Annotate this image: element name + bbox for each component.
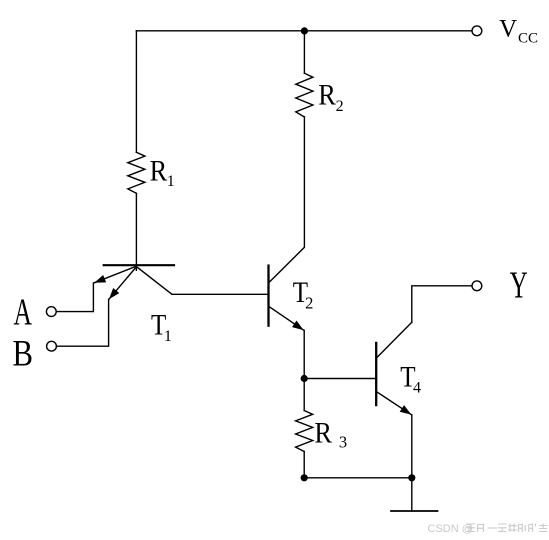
input terminal B [47,341,57,351]
wire R2 to T2 collector [270,117,305,282]
svg-text:R: R [150,155,168,188]
wire R3 to bottom node [303,452,305,478]
svg-text:B: B [13,334,33,374]
node junction top rail [301,27,308,34]
wire input B to T1 emitter 2 [57,299,109,346]
svg-text:3: 3 [339,433,347,452]
label T4 [400,361,421,397]
svg-text:R: R [318,79,336,112]
watermark CSDN [428,523,548,535]
svg-text:1: 1 [167,173,175,190]
transistor T2 [269,266,304,330]
wire top rail Vcc [136,30,472,32]
wire junction to R2 [303,31,305,73]
label Vcc [499,15,538,46]
svg-text:Y: Y [510,263,528,306]
wire R1 to T1 base [135,193,137,270]
node bottom right [408,474,415,481]
label T2 [293,276,314,312]
label R2 [318,79,343,115]
label R3 [314,417,347,452]
wire to ground [411,478,413,511]
node T2 emitter / R3 / T4 base [301,375,308,382]
wire T4 collector to output Y [412,286,472,322]
output terminal Y [472,281,482,291]
resistor R2 [296,73,313,117]
Vcc terminal circle [472,26,482,36]
wire T1 collector to T2 base [172,293,267,295]
label R1 [150,155,175,190]
svg-text:R: R [314,417,332,450]
input terminal A [46,307,56,317]
ground [391,510,438,512]
wire node to R3 [303,379,305,411]
wire left vertical from rail to R1 [135,31,137,153]
wire T2 emitter to node [303,330,305,378]
transistor T4 [376,322,412,414]
node bottom left [301,474,308,481]
svg-text:A: A [14,292,33,334]
svg-text:4: 4 [413,380,421,397]
wire T4 emitter to bottom node [411,415,413,478]
wire node to T4 base [304,378,375,380]
wire bottom rail [304,477,412,479]
label T1 [151,309,172,345]
svg-text:CC: CC [518,31,538,47]
svg-text:2: 2 [336,98,344,115]
resistor R1 [128,152,145,193]
transistor T1 (multi-emitter) [95,265,175,299]
svg-text:2: 2 [305,293,313,312]
resistor R3 [296,411,313,452]
wire input A to T1 emitter 1 [56,283,93,312]
svg-text:V: V [499,15,517,42]
svg-text:1: 1 [164,328,172,345]
svg-text:CSDN @: CSDN @ [428,523,473,535]
